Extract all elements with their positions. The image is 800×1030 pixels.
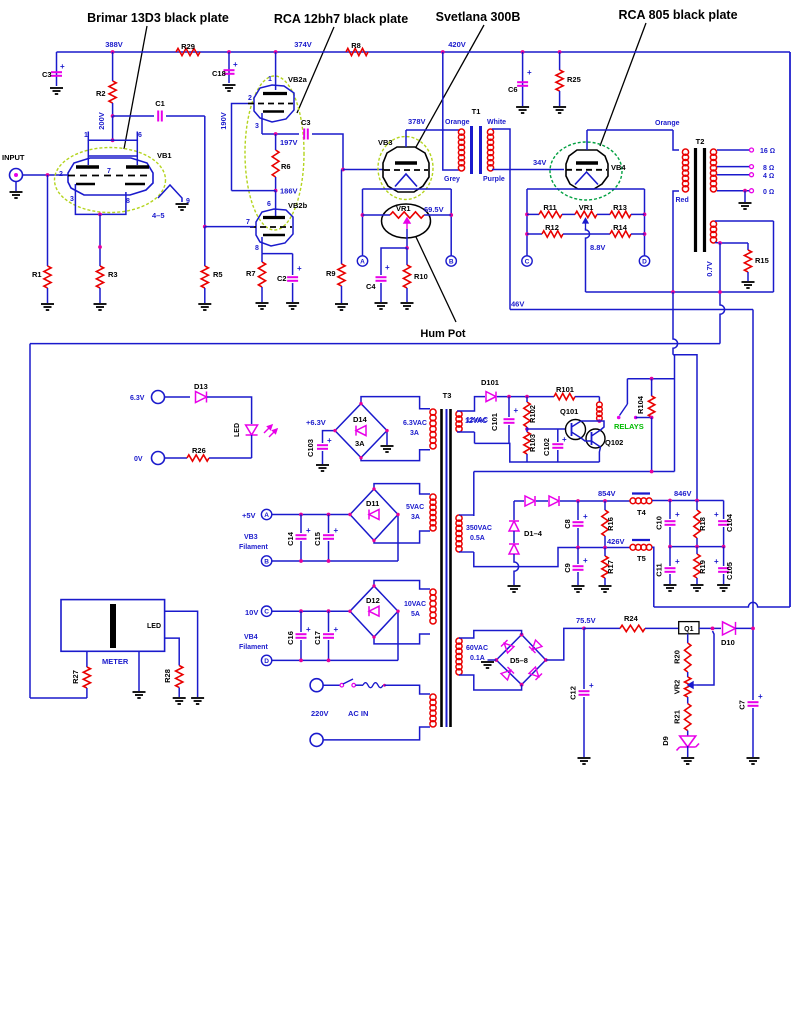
T3 winding 12VAC	[456, 411, 462, 432]
svg-text:7: 7	[107, 168, 111, 175]
svg-text:220V: 220V	[311, 709, 329, 718]
wire V01 plate frame	[88, 132, 137, 141]
ground C18	[223, 85, 236, 91]
node mid C105	[722, 545, 726, 549]
wire D rail	[272, 659, 398, 661]
resistor R15	[744, 250, 751, 272]
ground meter	[133, 692, 146, 698]
node V01 plate feed	[111, 138, 115, 142]
node V02b grid junction	[203, 225, 207, 229]
wire C17 column top	[328, 611, 330, 632]
wire 60VAC bottom to bridge	[459, 675, 522, 690]
wire Q1 to D10	[699, 627, 721, 629]
wire T2 primary bottom Red	[673, 191, 679, 292]
wire D14 out to C103	[323, 431, 336, 443]
wire cathode to C3 line	[262, 133, 299, 135]
wire C10 column	[669, 501, 671, 520]
node D5-8 top	[520, 633, 524, 637]
ground R25	[553, 107, 566, 113]
wire feedback bottom	[715, 242, 748, 245]
svg-text:+: +	[583, 556, 588, 565]
terminal 8 ohm	[750, 165, 754, 169]
wire relay circuit bottom rail	[475, 443, 600, 462]
node D14 top	[359, 402, 362, 405]
node mid R19	[695, 545, 699, 549]
node D5-8 right	[544, 658, 548, 662]
node D14 left	[333, 429, 336, 432]
wire cathode node to C2	[262, 253, 293, 255]
tube V02a envelope	[254, 85, 294, 122]
svg-text:Red: Red	[676, 197, 689, 204]
wire C9 column	[577, 548, 579, 565]
wire C104 bottom	[723, 527, 725, 547]
node 200V	[111, 114, 115, 118]
wire R104 top stub	[651, 379, 653, 396]
wire R18 top stub	[696, 501, 698, 511]
wire R6 bottom	[275, 177, 277, 191]
wire grid junction to R5	[204, 227, 206, 266]
VR3 wiper arrow	[583, 219, 588, 229]
svg-text:60VAC: 60VAC	[466, 645, 488, 652]
wire C104 column	[723, 501, 725, 520]
svg-text:200V: 200V	[97, 112, 106, 130]
svg-text:+: +	[306, 526, 311, 535]
svg-text:3: 3	[255, 123, 259, 130]
node bias riser D10	[751, 627, 755, 631]
tube V01 glow ellipse	[55, 148, 166, 213]
svg-text:A: A	[264, 512, 269, 519]
svg-text:R19: R19	[698, 560, 707, 574]
svg-text:8 Ω: 8 Ω	[763, 165, 774, 172]
svg-text:Orange: Orange	[445, 119, 470, 126]
wire R3 to ground	[99, 288, 101, 303]
wire C8 bottom	[577, 528, 579, 548]
bridge D11 diamond	[350, 489, 398, 541]
svg-text:RELAYS: RELAYS	[614, 422, 644, 431]
wire C7 to ground	[752, 708, 754, 757]
resistor R14	[610, 231, 631, 237]
svg-text:R17: R17	[606, 560, 615, 574]
node D11 right	[396, 513, 399, 516]
wire AC neutral to winding	[323, 727, 430, 740]
svg-text:VR1: VR1	[579, 203, 594, 212]
node C15 bottom	[327, 559, 331, 563]
svg-text:0.7V: 0.7V	[705, 261, 714, 276]
ground R17	[599, 586, 612, 592]
node D11 left	[348, 513, 351, 516]
svg-text:34V: 34V	[533, 158, 546, 167]
capacitor C14	[296, 535, 307, 539]
wire input jack ground stub	[15, 182, 17, 192]
svg-text:C4: C4	[366, 282, 376, 291]
relay contact	[620, 404, 628, 416]
wire C15 column top	[328, 515, 330, 534]
diode D6	[529, 640, 542, 653]
switch S1	[340, 679, 356, 687]
svg-text:R10: R10	[414, 272, 428, 281]
svg-text:420V: 420V	[448, 40, 466, 49]
svg-text:854V: 854V	[598, 489, 616, 498]
node D12 right	[396, 610, 399, 613]
svg-text:C: C	[264, 609, 269, 616]
ground C7	[747, 758, 760, 764]
diode D13	[196, 392, 207, 403]
svg-text:AC IN: AC IN	[348, 709, 368, 718]
resistor R5	[201, 266, 208, 288]
svg-text:INPUT: INPUT	[2, 153, 25, 162]
wire C102 column	[557, 429, 559, 442]
capacitor C10	[665, 521, 676, 525]
svg-text:C: C	[525, 258, 530, 265]
node 75.5V	[582, 627, 586, 631]
LED symbol	[246, 425, 258, 435]
wire LED to R26	[251, 435, 253, 458]
wire R16 bottom stub	[604, 536, 606, 548]
T3 winding 6.3VAC	[430, 409, 436, 449]
wire C1 to corner	[166, 115, 205, 117]
wire 186V to grid wire	[232, 190, 276, 192]
diode D1	[509, 521, 519, 531]
wire C14 column top	[300, 515, 302, 534]
node feedback line 0.7V	[718, 290, 722, 294]
wire V04 filament rail	[527, 188, 645, 190]
svg-text:C3: C3	[301, 118, 311, 127]
svg-text:R5: R5	[213, 270, 223, 279]
ground C4	[375, 303, 388, 309]
svg-text:R8: R8	[351, 41, 361, 50]
svg-text:D1–4: D1–4	[524, 529, 543, 538]
svg-text:C104: C104	[725, 513, 734, 532]
svg-text:D10: D10	[721, 638, 735, 647]
svg-text:+: +	[233, 60, 238, 69]
wire V03 plate to T1 primary top	[406, 129, 460, 131]
wire R101 to relay coil	[575, 396, 599, 398]
wire feedback winding top drop	[773, 221, 775, 292]
svg-text:4–5: 4–5	[152, 211, 165, 220]
plate bars V01	[76, 165, 149, 168]
wire D9 to ground	[687, 746, 689, 757]
wire mid filter rail	[670, 546, 724, 548]
capacitor C18	[224, 70, 235, 74]
resistor VR2	[685, 677, 691, 697]
svg-text:T4: T4	[637, 508, 647, 517]
svg-text:C102: C102	[542, 438, 551, 456]
bridge D12 diamond	[350, 586, 398, 637]
svg-text:3A: 3A	[355, 439, 365, 448]
wire C12 column	[583, 628, 585, 689]
ground R10	[401, 303, 414, 309]
wire rail to V02a plate	[275, 52, 277, 90]
wire R17 bottom	[604, 578, 606, 585]
wire cathode to R3	[99, 214, 101, 266]
wire R19 bottom	[696, 578, 698, 584]
node soft start R104	[650, 470, 654, 474]
svg-text:2: 2	[59, 171, 63, 178]
node D amp	[639, 256, 649, 266]
T3 winding 10VAC	[430, 589, 436, 624]
svg-text:VB1: VB1	[157, 151, 172, 160]
node R17 top	[603, 546, 607, 550]
svg-text:C16: C16	[286, 631, 295, 645]
wire filament rail right down	[450, 189, 452, 256]
VR1 wiper arrow	[404, 218, 410, 229]
ground input jack	[10, 192, 23, 198]
wire C105 bottom	[723, 574, 725, 584]
svg-text:6.3VAC: 6.3VAC	[403, 420, 427, 427]
svg-text:LED: LED	[234, 423, 241, 437]
wire Q102 emitter down	[599, 447, 600, 462]
svg-text:10V: 10V	[245, 608, 258, 617]
cathode bar V02a	[263, 110, 284, 112]
bridge D5-8 diamond	[496, 635, 546, 685]
svg-text:R7: R7	[246, 269, 256, 278]
svg-text:Orange: Orange	[655, 120, 680, 127]
svg-text:0V: 0V	[134, 456, 143, 463]
svg-text:RCA 12bh7 black plate: RCA 12bh7 black plate	[274, 12, 408, 26]
wire C101 bottom	[508, 425, 510, 443]
resistor R21	[685, 704, 691, 731]
node C16 top	[299, 609, 303, 613]
wire D14 right to ground	[386, 431, 388, 445]
capacitor C16	[296, 634, 307, 638]
capacitor C102	[552, 444, 563, 448]
svg-text:75.5V: 75.5V	[576, 616, 596, 625]
ground heater pin 9	[176, 204, 189, 210]
ground meter stub	[191, 698, 204, 704]
svg-text:R25: R25	[567, 75, 581, 84]
resistor R13	[610, 211, 631, 217]
svg-text:+: +	[297, 264, 302, 273]
wire V02a grid left	[232, 104, 249, 191]
node D14 right	[385, 429, 388, 432]
diode D5	[501, 640, 514, 653]
wire 350VAC top hook	[459, 514, 474, 516]
filament V03	[395, 174, 417, 187]
wire R11 to VR3	[562, 213, 575, 215]
node C psu	[261, 606, 271, 616]
relay coil K1	[597, 402, 603, 421]
capacitor C101	[504, 419, 515, 423]
wire C1 corner down	[204, 116, 206, 227]
diode D101	[486, 392, 496, 402]
wire input to grid	[23, 174, 69, 176]
svg-text:R16: R16	[606, 517, 615, 531]
node D11 top	[372, 487, 375, 490]
diode D14 inner	[356, 426, 366, 436]
node C amp	[522, 256, 532, 266]
wire 388V to R2	[112, 52, 114, 81]
wire feedback top	[715, 220, 774, 222]
wire contact to R104 bottom	[636, 417, 652, 419]
terminal AC live	[310, 679, 323, 692]
ground R19	[691, 585, 704, 591]
svg-text:Purple: Purple	[483, 176, 505, 183]
wire D12 top to winding	[374, 581, 430, 590]
wire sense left drop	[29, 344, 31, 698]
svg-text:T5: T5	[637, 554, 646, 563]
svg-text:C11: C11	[655, 563, 664, 576]
wire R10 to ground	[406, 288, 408, 302]
svg-text:R1: R1	[32, 270, 42, 279]
wire R15 to ground	[747, 272, 749, 281]
meter box	[61, 600, 165, 652]
svg-text:B: B	[264, 558, 269, 565]
capacitor C104	[718, 521, 729, 525]
wire tap 16 ohm	[717, 149, 750, 151]
resistor R3	[96, 266, 103, 288]
terminal 0V	[152, 452, 165, 465]
svg-text:D101: D101	[481, 378, 499, 387]
svg-text:+: +	[714, 557, 719, 566]
grid dashes V02b	[250, 226, 292, 228]
wire Q101 collector	[581, 420, 599, 422]
wire 0 ohm to ground	[744, 191, 746, 202]
node 197V junction	[274, 132, 278, 136]
svg-text:197V: 197V	[280, 138, 298, 147]
wire C6 drop	[522, 52, 524, 106]
wire C to bridge	[272, 610, 350, 612]
capacitor C6	[517, 82, 528, 86]
wire soft start line	[474, 471, 675, 473]
T3 winding 350VAC	[456, 515, 462, 552]
wire C15 column bottom	[328, 541, 330, 561]
wire meter stub R28	[165, 638, 180, 665]
resistor R16	[602, 510, 608, 536]
svg-text:C12: C12	[569, 686, 578, 700]
wire bridge out up	[546, 628, 584, 660]
node A psu	[261, 509, 271, 519]
svg-text:R6: R6	[281, 162, 291, 171]
svg-text:C105: C105	[725, 562, 734, 580]
ground doubler	[508, 586, 521, 592]
resistor VR3	[575, 211, 597, 217]
svg-text:+: +	[527, 68, 532, 77]
node 846V C10	[668, 499, 672, 503]
wire C4 to ground	[380, 283, 382, 302]
svg-text:D13: D13	[194, 382, 208, 391]
wire R12 row left stub	[527, 233, 542, 235]
svg-text:+: +	[514, 406, 519, 415]
svg-text:388V: 388V	[105, 40, 123, 49]
node 0 ohm ground junction	[743, 189, 747, 193]
wire R14 right stub	[631, 233, 645, 235]
wire D12 right down	[397, 611, 399, 660]
node R16 top	[603, 499, 607, 503]
svg-text:+5V: +5V	[242, 511, 256, 520]
wire V01 heater	[158, 185, 182, 202]
node 388V junction	[111, 50, 115, 54]
wire R102 R103 join	[526, 427, 528, 432]
T3 winding 5VAC	[430, 494, 436, 531]
node C14 bottom	[299, 559, 303, 563]
fuse F1	[363, 683, 383, 688]
svg-text:C2: C2	[277, 274, 287, 283]
capacitor C2	[287, 277, 298, 281]
node C101 top	[507, 395, 511, 399]
capacitor C7	[748, 702, 759, 706]
svg-text:+: +	[758, 692, 763, 701]
svg-text:White: White	[487, 119, 506, 126]
cathode bars V01	[76, 183, 145, 186]
capacitor C3	[51, 72, 62, 76]
node C8 top	[576, 499, 580, 503]
wire D4 to T4	[560, 500, 630, 502]
wire C103 to ground	[322, 451, 324, 464]
ground C103	[316, 465, 329, 471]
node D12 left	[348, 610, 351, 613]
wire 186V to V02b plate	[275, 191, 277, 217]
ground C3	[50, 88, 63, 94]
ground D5-8	[481, 662, 494, 668]
wire C12 bottom	[583, 697, 585, 757]
hum pot VR1 ellipse	[382, 204, 431, 238]
svg-text:C3: C3	[42, 70, 52, 79]
svg-text:4 Ω: 4 Ω	[763, 173, 774, 180]
wire A to bridge	[272, 514, 350, 516]
wire R12 to R14	[563, 233, 610, 235]
svg-text:R3: R3	[108, 270, 118, 279]
ground C2	[286, 303, 299, 309]
wire meter center ground	[138, 651, 140, 691]
svg-text:R101: R101	[556, 385, 574, 394]
svg-text:R15: R15	[755, 256, 769, 265]
svg-text:C10: C10	[655, 516, 664, 530]
svg-text:2: 2	[248, 95, 252, 102]
pointer line to V02	[297, 27, 334, 113]
plate bar V02b	[263, 216, 285, 219]
wire D14 top to winding	[361, 397, 430, 409]
plate bar V03	[395, 161, 417, 164]
svg-text:R102: R102	[528, 405, 537, 423]
wire 420V to T1 primary bottom	[443, 52, 460, 170]
svg-text:R29: R29	[181, 42, 195, 51]
svg-text:1: 1	[268, 76, 272, 83]
resistor R104	[648, 396, 654, 417]
node VR1 right	[449, 213, 453, 217]
resistor R24	[620, 625, 645, 631]
wire 60VAC top to bridge	[459, 631, 522, 639]
svg-text:C14: C14	[286, 531, 295, 546]
wire V02a cathode down	[261, 113, 263, 134]
wire C102 bottom	[557, 450, 559, 462]
node R12 right	[643, 232, 647, 236]
wire V03 filament rail	[363, 188, 452, 190]
svg-text:A: A	[360, 258, 365, 265]
svg-text:Q101: Q101	[560, 407, 578, 416]
node rail C18	[227, 50, 231, 54]
wire VR1 left arm	[363, 214, 391, 216]
resistor R8	[346, 48, 368, 55]
wire 0V to R26	[165, 457, 188, 459]
resistor R10	[403, 265, 410, 288]
wire relay feed drop	[674, 355, 676, 472]
wire T1 secondary top White	[492, 129, 510, 310]
svg-text:Q1: Q1	[684, 626, 693, 633]
wire B rail	[272, 560, 398, 562]
wire AC live to switch	[323, 684, 340, 686]
tube V03 envelope	[383, 147, 429, 192]
capacitor C8	[573, 522, 584, 526]
wire grid junction to R9	[341, 170, 343, 265]
wire V01 pin1 to left plate	[87, 140, 89, 165]
wire wiper to C4	[381, 248, 407, 275]
grid dashes V01	[68, 175, 148, 177]
wire VR3 to R13	[597, 213, 610, 215]
wire 846V riser upper	[673, 292, 678, 355]
node R3 wire dot	[98, 245, 102, 249]
T3 winding 60VAC	[456, 638, 462, 675]
wire 12VAC top to D101	[457, 397, 485, 411]
